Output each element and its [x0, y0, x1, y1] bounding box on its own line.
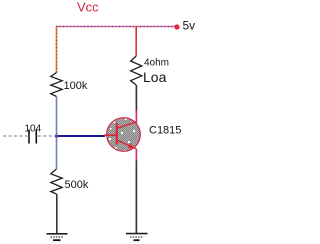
svg-text:C1815: C1815	[149, 125, 181, 137]
svg-text:104: 104	[25, 124, 42, 135]
svg-text:500k: 500k	[65, 179, 89, 191]
svg-text:100k: 100k	[64, 80, 88, 92]
svg-text:Vcc: Vcc	[77, 0, 99, 15]
svg-text:5v: 5v	[183, 19, 196, 33]
svg-text:4ohm: 4ohm	[144, 58, 169, 69]
svg-text:Loa: Loa	[143, 69, 167, 85]
